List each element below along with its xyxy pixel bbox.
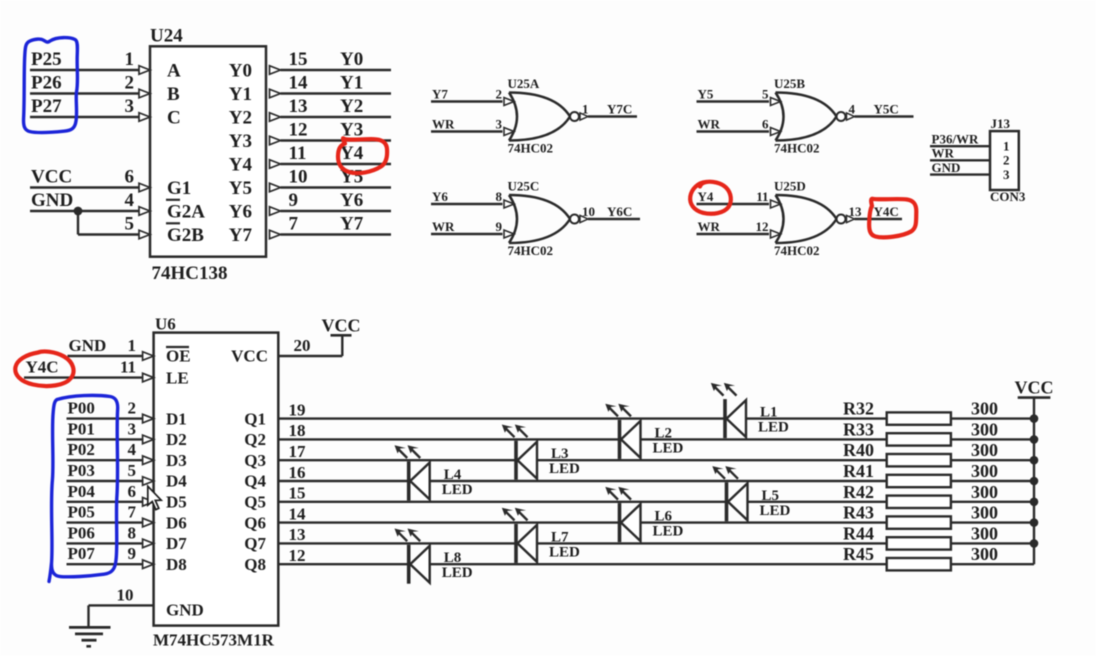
svg-text:B: B xyxy=(167,84,180,105)
svg-text:D5: D5 xyxy=(166,493,187,512)
svg-text:P36/WR: P36/WR xyxy=(932,131,980,146)
svg-text:6: 6 xyxy=(762,116,769,131)
svg-text:R40: R40 xyxy=(843,440,874,460)
svg-text:13: 13 xyxy=(289,96,308,117)
svg-text:GND: GND xyxy=(69,336,107,355)
svg-text:R42: R42 xyxy=(843,482,874,502)
svg-text:74HC02: 74HC02 xyxy=(774,243,820,258)
svg-text:VCC: VCC xyxy=(1015,378,1054,398)
svg-text:7: 7 xyxy=(289,214,299,235)
svg-text:300: 300 xyxy=(971,482,998,502)
svg-text:WR: WR xyxy=(932,146,955,161)
svg-text:74HC02: 74HC02 xyxy=(508,243,554,258)
svg-text:14: 14 xyxy=(289,73,309,94)
svg-text:7: 7 xyxy=(128,503,137,522)
svg-text:GND: GND xyxy=(31,190,73,211)
svg-text:12: 12 xyxy=(289,546,306,565)
svg-text:15: 15 xyxy=(289,49,308,70)
svg-text:P06: P06 xyxy=(68,523,95,542)
svg-text:4: 4 xyxy=(128,440,137,459)
svg-text:WR: WR xyxy=(698,219,721,234)
svg-text:C: C xyxy=(167,107,181,128)
svg-text:U25C: U25C xyxy=(508,179,540,194)
svg-text:OE: OE xyxy=(166,347,191,366)
svg-text:4: 4 xyxy=(125,190,135,211)
svg-text:WR: WR xyxy=(698,116,721,131)
svg-text:13: 13 xyxy=(289,525,306,544)
svg-text:74HC02: 74HC02 xyxy=(774,141,820,156)
svg-text:Y0: Y0 xyxy=(340,49,363,70)
svg-text:G2B: G2B xyxy=(167,225,204,246)
svg-text:VCC: VCC xyxy=(322,315,361,335)
svg-text:U25A: U25A xyxy=(508,76,540,91)
svg-text:2: 2 xyxy=(125,73,135,94)
svg-text:P03: P03 xyxy=(68,461,95,480)
svg-text:Y6: Y6 xyxy=(432,189,448,204)
svg-text:P01: P01 xyxy=(68,419,95,438)
svg-text:LED: LED xyxy=(653,524,684,540)
svg-text:Y5: Y5 xyxy=(698,86,714,101)
svg-text:D2: D2 xyxy=(166,430,187,449)
svg-text:16: 16 xyxy=(289,463,306,482)
svg-text:LE: LE xyxy=(166,368,189,387)
svg-text:WR: WR xyxy=(432,219,455,234)
svg-text:Q1: Q1 xyxy=(244,409,266,428)
svg-text:74HC138: 74HC138 xyxy=(152,263,228,284)
svg-text:6: 6 xyxy=(125,167,135,188)
svg-text:Y4C: Y4C xyxy=(26,358,59,377)
svg-text:R33: R33 xyxy=(843,419,874,439)
svg-text:Y4C: Y4C xyxy=(874,204,899,219)
svg-text:2: 2 xyxy=(1003,153,1010,168)
svg-text:U6: U6 xyxy=(155,315,176,334)
svg-text:3: 3 xyxy=(128,419,137,438)
svg-text:5: 5 xyxy=(125,214,135,235)
svg-text:300: 300 xyxy=(971,399,998,419)
svg-text:Y0: Y0 xyxy=(229,60,252,81)
svg-text:9: 9 xyxy=(289,190,299,211)
svg-text:R41: R41 xyxy=(843,461,874,481)
svg-text:1: 1 xyxy=(1003,139,1010,154)
svg-text:3: 3 xyxy=(125,96,135,117)
svg-text:Y1: Y1 xyxy=(229,84,252,105)
svg-text:300: 300 xyxy=(971,523,998,543)
svg-text:Y1: Y1 xyxy=(340,73,363,94)
svg-text:11: 11 xyxy=(756,189,768,204)
svg-text:D3: D3 xyxy=(166,451,187,470)
svg-text:19: 19 xyxy=(289,400,306,419)
svg-text:Y6: Y6 xyxy=(229,201,252,222)
svg-text:8: 8 xyxy=(496,189,503,204)
svg-text:300: 300 xyxy=(971,544,998,564)
svg-text:Y6C: Y6C xyxy=(607,204,632,219)
svg-text:D7: D7 xyxy=(166,534,187,553)
svg-text:13: 13 xyxy=(849,204,863,219)
svg-text:R45: R45 xyxy=(843,544,874,564)
svg-text:LED: LED xyxy=(760,503,791,519)
svg-text:Y2: Y2 xyxy=(340,96,363,117)
svg-text:Y5: Y5 xyxy=(229,178,252,199)
svg-text:Y7: Y7 xyxy=(432,86,448,101)
svg-text:D8: D8 xyxy=(166,555,187,574)
svg-text:D1: D1 xyxy=(166,409,187,428)
svg-text:GND: GND xyxy=(932,160,961,175)
svg-text:5: 5 xyxy=(762,86,769,101)
svg-text:6: 6 xyxy=(128,482,137,501)
svg-text:Q2: Q2 xyxy=(244,430,266,449)
svg-text:Q8: Q8 xyxy=(244,555,266,574)
svg-text:LED: LED xyxy=(442,482,473,498)
svg-text:Y4: Y4 xyxy=(698,189,714,204)
svg-text:GND: GND xyxy=(166,601,204,620)
svg-text:4: 4 xyxy=(849,102,856,117)
svg-text:Y2: Y2 xyxy=(229,107,252,128)
svg-text:8: 8 xyxy=(128,523,137,542)
svg-text:U24: U24 xyxy=(150,26,183,47)
svg-text:U25D: U25D xyxy=(774,179,806,194)
svg-text:3: 3 xyxy=(1003,167,1010,182)
svg-text:20: 20 xyxy=(294,336,311,355)
svg-text:R44: R44 xyxy=(843,523,874,543)
svg-text:Y7: Y7 xyxy=(340,214,364,235)
svg-text:74HC02: 74HC02 xyxy=(508,141,554,156)
svg-text:Y7: Y7 xyxy=(229,225,253,246)
svg-text:VCC: VCC xyxy=(31,167,72,188)
svg-text:Y3: Y3 xyxy=(229,131,252,152)
svg-text:2: 2 xyxy=(496,86,503,101)
svg-text:P02: P02 xyxy=(68,440,95,459)
svg-text:10: 10 xyxy=(117,585,134,604)
svg-text:Y7C: Y7C xyxy=(607,102,632,117)
svg-text:14: 14 xyxy=(289,504,307,523)
svg-text:Q7: Q7 xyxy=(244,534,266,553)
svg-text:D6: D6 xyxy=(166,513,187,532)
svg-text:300: 300 xyxy=(971,419,998,439)
svg-text:Q3: Q3 xyxy=(244,451,266,470)
svg-text:P00: P00 xyxy=(68,399,95,418)
svg-text:P25: P25 xyxy=(31,49,62,70)
svg-text:U25B: U25B xyxy=(774,76,805,91)
svg-text:1: 1 xyxy=(125,49,135,70)
svg-text:18: 18 xyxy=(289,421,306,440)
svg-text:11: 11 xyxy=(120,358,136,377)
svg-text:9: 9 xyxy=(128,544,137,563)
svg-text:12: 12 xyxy=(756,219,769,234)
svg-text:Y4: Y4 xyxy=(229,154,253,175)
svg-text:P04: P04 xyxy=(68,482,96,501)
svg-text:Y5C: Y5C xyxy=(874,102,899,117)
svg-text:G1: G1 xyxy=(167,178,191,199)
svg-text:M74HC573M1R: M74HC573M1R xyxy=(153,631,275,650)
svg-text:A: A xyxy=(167,60,181,81)
svg-text:300: 300 xyxy=(971,503,998,523)
svg-text:3: 3 xyxy=(496,116,503,131)
svg-text:300: 300 xyxy=(971,440,998,460)
svg-text:LED: LED xyxy=(758,420,789,436)
svg-text:2: 2 xyxy=(128,399,137,418)
svg-text:Y6: Y6 xyxy=(340,190,363,211)
svg-text:11: 11 xyxy=(289,143,307,164)
svg-text:10: 10 xyxy=(582,204,595,219)
svg-text:G2A: G2A xyxy=(167,201,205,222)
svg-text:10: 10 xyxy=(289,167,308,188)
svg-text:17: 17 xyxy=(289,442,307,461)
svg-text:Q4: Q4 xyxy=(244,472,266,491)
svg-text:P26: P26 xyxy=(31,73,62,94)
svg-text:5: 5 xyxy=(128,461,137,480)
svg-text:D4: D4 xyxy=(166,472,187,491)
svg-text:15: 15 xyxy=(289,484,306,503)
svg-text:P05: P05 xyxy=(68,503,95,522)
svg-text:J13: J13 xyxy=(991,116,1011,131)
svg-text:300: 300 xyxy=(971,461,998,481)
svg-text:P07: P07 xyxy=(68,544,96,563)
svg-text:R43: R43 xyxy=(843,503,874,523)
svg-text:CON3: CON3 xyxy=(990,189,1026,204)
svg-text:LED: LED xyxy=(653,440,684,456)
svg-text:VCC: VCC xyxy=(231,347,268,366)
svg-text:LED: LED xyxy=(549,544,580,560)
svg-text:LED: LED xyxy=(442,565,473,581)
svg-text:WR: WR xyxy=(432,116,455,131)
svg-text:1: 1 xyxy=(582,102,589,117)
svg-text:LED: LED xyxy=(549,461,580,477)
svg-text:R32: R32 xyxy=(843,399,874,419)
svg-text:1: 1 xyxy=(128,336,137,355)
svg-text:Q6: Q6 xyxy=(244,513,266,532)
svg-text:12: 12 xyxy=(289,120,308,141)
svg-text:Q5: Q5 xyxy=(244,493,266,512)
svg-text:9: 9 xyxy=(496,219,503,234)
svg-text:P27: P27 xyxy=(31,96,62,117)
